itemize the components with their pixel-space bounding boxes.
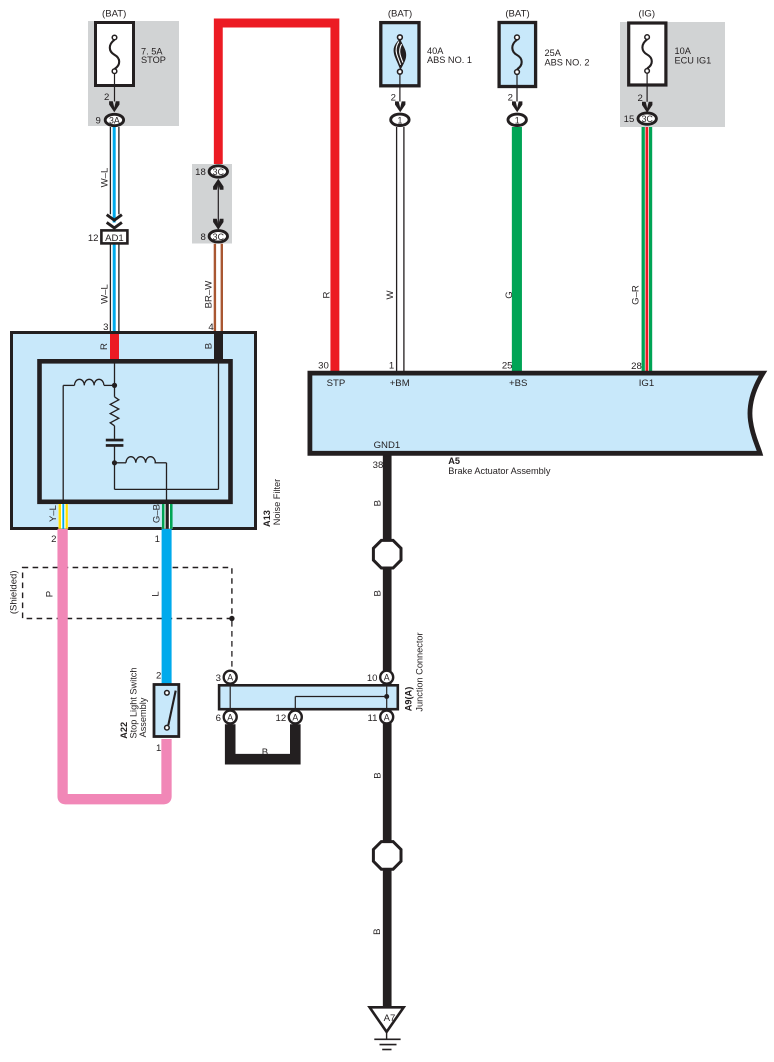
inductor L2 — [126, 457, 155, 463]
connector AD1 pin 12 — [88, 230, 128, 244]
svg-text:A22: A22 — [119, 722, 129, 739]
svg-text:1: 1 — [397, 115, 402, 125]
svg-text:STOP: STOP — [141, 55, 166, 65]
svg-text:B: B — [372, 928, 383, 934]
shielded cable dashed boundary — [23, 568, 232, 619]
svg-text:(BAT): (BAT) — [505, 8, 529, 19]
svg-text:R: R — [99, 343, 110, 350]
capacitor C1 plates — [106, 439, 124, 442]
svg-text:B: B — [373, 590, 384, 596]
svg-text:8: 8 — [200, 232, 205, 243]
pin arrow — [395, 101, 405, 112]
svg-text:P: P — [45, 591, 56, 597]
svg-text:3: 3 — [216, 673, 221, 684]
svg-text:A9(A): A9(A) — [404, 687, 414, 712]
svg-text:BR–W: BR–W — [204, 280, 215, 309]
wire fuse lead — [516, 75, 518, 102]
connector 3A pin 9 — [105, 114, 123, 125]
svg-text:A: A — [384, 673, 390, 683]
svg-text:(Shielded): (Shielded) — [9, 570, 20, 614]
svg-text:Stop Light Switch: Stop Light Switch — [128, 668, 138, 739]
svg-text:1: 1 — [156, 743, 161, 754]
svg-text:Noise Filter: Noise Filter — [272, 479, 282, 525]
gray panel with connectors 3C/3C — [192, 164, 232, 244]
svg-text:2: 2 — [156, 670, 161, 681]
svg-text:ABS NO. 1: ABS NO. 1 — [427, 55, 472, 65]
svg-text:1: 1 — [515, 115, 520, 125]
double chevron arrow on W-L wire — [107, 215, 122, 228]
junction pin A 11 — [368, 711, 394, 725]
svg-text:STP: STP — [327, 378, 346, 389]
wire node B return to pin B — [115, 364, 219, 490]
svg-text:B: B — [373, 500, 384, 506]
pin arrow up — [213, 179, 223, 190]
pin arrow — [109, 101, 119, 112]
shield drain node — [229, 616, 234, 621]
svg-text:W–L: W–L — [99, 283, 110, 303]
pin stub Y-L — [58, 504, 68, 529]
svg-text:Junction Connector: Junction Connector — [415, 632, 425, 711]
svg-text:A5: A5 — [448, 456, 460, 466]
svg-text:A: A — [292, 712, 298, 722]
ground symbol — [386, 1032, 388, 1040]
wire capacitor to node B — [115, 446, 127, 462]
svg-text:A: A — [227, 712, 233, 722]
wire G green from fuse ABS NO.2 to brake actuator pin 25 — [512, 127, 522, 374]
svg-text:Assembly: Assembly — [138, 697, 148, 737]
svg-text:(BAT): (BAT) — [388, 8, 412, 19]
wire fuse lead — [114, 74, 116, 102]
svg-text:28: 28 — [631, 361, 642, 372]
internal bus wires — [230, 687, 387, 709]
resistor R1 — [110, 385, 119, 439]
junction connector A9(A) box — [219, 632, 424, 711]
noise filter A13 outer box — [12, 333, 283, 529]
fuse 10A ECU IG1 with gray panel — [620, 8, 725, 127]
wire R (STP) red from connector 3C to brake actuator pin 30 — [218, 23, 335, 374]
svg-text:18: 18 — [195, 167, 206, 178]
connector 1 — [391, 114, 409, 125]
svg-text:W–L: W–L — [99, 167, 110, 187]
wire L blue from noise filter pin 1 to stop light switch pin 2 — [162, 529, 172, 685]
svg-text:B: B — [373, 772, 384, 778]
wire fuse lead — [646, 73, 648, 102]
svg-text:12: 12 — [88, 233, 99, 244]
fuse 25A ABS NO.2 — [499, 8, 589, 125]
wire BR-W from connector 3C pin 8 to noise filter pin 4 — [215, 244, 222, 333]
dashed shield drain wire to junction connector pin 3 — [231, 621, 233, 670]
svg-text:B: B — [204, 343, 215, 349]
svg-text:B: B — [262, 747, 268, 758]
connector 3C pin 8 — [209, 231, 227, 242]
fuse body 25A — [499, 23, 535, 87]
svg-text:12: 12 — [276, 713, 287, 724]
ground A7 — [370, 1007, 404, 1049]
fusible link body 40A — [381, 23, 419, 86]
node B junction dot — [112, 460, 117, 465]
svg-text:Brake Actuator Assembly: Brake Actuator Assembly — [448, 466, 551, 476]
svg-text:1: 1 — [389, 360, 394, 371]
svg-text:3C: 3C — [213, 232, 225, 242]
svg-text:R: R — [322, 291, 333, 298]
pin arrow — [642, 102, 652, 113]
svg-text:(IG): (IG) — [639, 8, 656, 19]
black wire B between junction pins 6 and 12 — [230, 724, 295, 759]
svg-text:1: 1 — [155, 534, 160, 545]
junction pin A 12 — [276, 711, 302, 725]
pin stub B — [214, 334, 223, 364]
svg-text:(BAT): (BAT) — [102, 8, 126, 19]
fuse body 7.5A STOP — [96, 23, 134, 86]
octagon connector splice 1 — [373, 540, 401, 568]
connector 1 — [508, 114, 526, 125]
svg-text:25: 25 — [502, 360, 513, 371]
node A junction dot — [112, 383, 117, 388]
svg-text:ECU IG1: ECU IG1 — [675, 56, 712, 66]
svg-text:3C: 3C — [213, 167, 225, 177]
inner box — [40, 361, 231, 502]
svg-text:A: A — [227, 673, 233, 683]
wire fuse lead — [399, 74, 401, 101]
svg-text:10: 10 — [367, 673, 378, 684]
svg-text:A13: A13 — [262, 510, 272, 527]
stop light switch assembly A22 — [119, 668, 179, 755]
black ground wire B from GND1 down to ground A7 — [383, 456, 392, 1009]
svg-text:3C: 3C — [642, 114, 654, 124]
svg-text:2: 2 — [637, 93, 642, 104]
wire G-R from fuse ECU IG1 to brake actuator pin 28 — [642, 126, 653, 374]
fuse body 10A — [629, 23, 666, 85]
svg-text:3A: 3A — [109, 116, 120, 126]
svg-text:GND1: GND1 — [374, 440, 401, 451]
wire P pink from noise filter pin 2 to stop light switch pin 1 — [63, 529, 167, 799]
wire inductor L2 to pin 1 — [155, 463, 167, 504]
svg-text:G–B: G–B — [151, 504, 162, 523]
connector 3C pin 18 — [209, 166, 227, 177]
svg-text:9: 9 — [95, 116, 100, 127]
svg-text:AD1: AD1 — [105, 233, 124, 244]
svg-text:IG1: IG1 — [639, 378, 654, 389]
svg-text:L: L — [151, 591, 162, 597]
svg-text:11: 11 — [368, 713, 378, 724]
svg-text:Y–L: Y–L — [48, 504, 59, 522]
octagon connector splice 2 — [373, 842, 401, 870]
wire W-L from fuse STOP to noise filter pin 3 — [110, 127, 119, 333]
svg-text:38: 38 — [373, 460, 384, 471]
wire W white from fuse ABS NO.1 to brake actuator pin 1 — [397, 127, 404, 374]
pin arrow — [512, 101, 522, 112]
svg-text:ABS NO. 2: ABS NO. 2 — [545, 57, 590, 67]
svg-text:2: 2 — [104, 92, 109, 103]
svg-text:A7: A7 — [384, 1013, 396, 1024]
junction pin A 6 — [216, 711, 237, 725]
svg-text:6: 6 — [216, 713, 221, 724]
svg-text:15: 15 — [624, 114, 635, 125]
svg-text:30: 30 — [318, 360, 329, 371]
pin stub R — [110, 334, 119, 364]
svg-text:+BS: +BS — [509, 378, 527, 389]
junction pin A 3 — [216, 671, 237, 684]
connector 3C pin 15 — [638, 113, 656, 124]
svg-text:10A: 10A — [675, 46, 692, 56]
pin stub G-B — [162, 504, 173, 529]
svg-text:G–R: G–R — [631, 285, 642, 305]
fuse 7.5A STOP with gray panel — [88, 8, 179, 126]
svg-text:G: G — [504, 291, 515, 298]
svg-text:2: 2 — [51, 534, 56, 545]
brake actuator assembly A5 box — [310, 373, 763, 476]
internal junction dot — [384, 694, 389, 699]
junction pin A 10 — [367, 671, 393, 684]
svg-text:W: W — [385, 290, 396, 300]
fuse 40A ABS NO.1 — [381, 8, 472, 125]
inductor L1 — [75, 379, 104, 385]
svg-text:+BM: +BM — [390, 378, 410, 389]
wire between 3C pins — [217, 180, 219, 229]
wire node A to inductor L1 and down to pin 2 — [63, 385, 114, 504]
pin arrow down — [213, 219, 223, 230]
wire from pin 3 to node A — [114, 364, 116, 386]
svg-text:A: A — [384, 712, 390, 722]
switch contacts and lever — [168, 691, 175, 726]
